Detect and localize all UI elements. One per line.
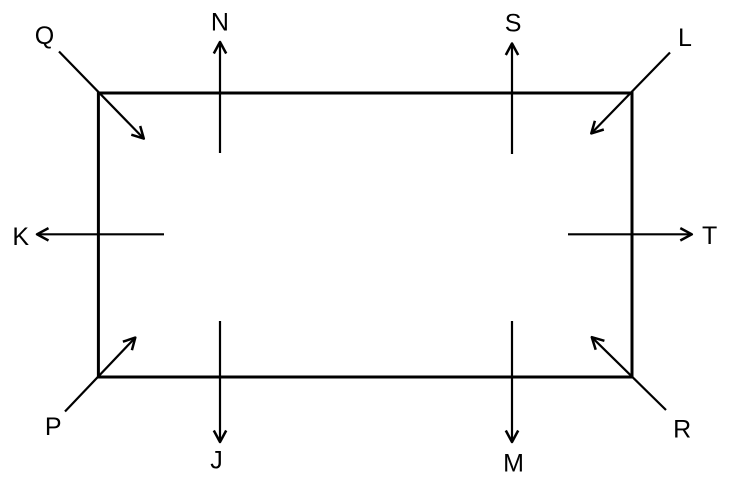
- block rectangle: [98, 93, 632, 377]
- arrow T: [568, 228, 692, 240]
- svg-text:N: N: [211, 8, 229, 36]
- arrow N: [214, 42, 226, 153]
- svg-text:R: R: [673, 415, 691, 443]
- arrow M: [506, 321, 518, 442]
- svg-text:Q: Q: [35, 22, 54, 50]
- svg-text:J: J: [210, 446, 223, 474]
- svg-text:S: S: [505, 10, 522, 38]
- arrow R: [592, 337, 666, 410]
- svg-text:P: P: [45, 413, 62, 441]
- svg-text:K: K: [12, 223, 29, 251]
- arrow K: [37, 228, 164, 240]
- svg-text:M: M: [503, 450, 524, 478]
- arrow S: [506, 44, 518, 155]
- arrow J: [214, 321, 226, 442]
- svg-text:T: T: [702, 222, 717, 250]
- svg-text:L: L: [678, 24, 692, 52]
- arrow P: [65, 338, 135, 412]
- arrow L: [591, 53, 670, 134]
- arrow Q: [59, 52, 144, 139]
